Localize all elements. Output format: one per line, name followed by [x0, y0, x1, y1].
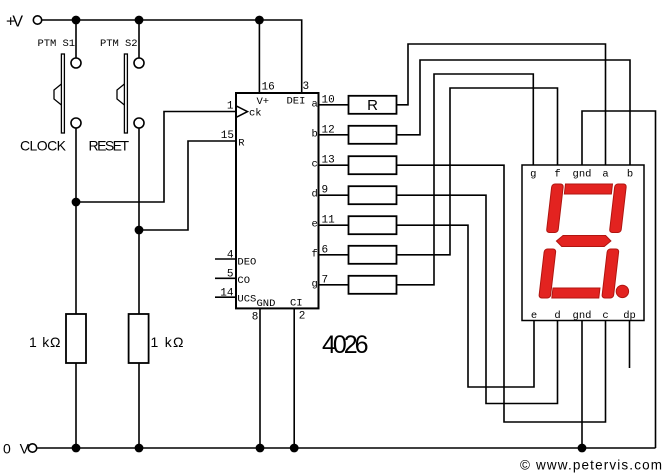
- junction +V at pin16: [255, 16, 264, 25]
- svg-text:c: c: [312, 159, 318, 171]
- svg-text:DEO: DEO: [237, 257, 256, 269]
- wire resistor d to display pin d: [397, 195, 558, 403]
- svg-text:ck: ck: [249, 108, 262, 120]
- svg-text:e: e: [531, 310, 537, 322]
- svg-text:4: 4: [227, 250, 234, 262]
- svg-text:9: 9: [322, 185, 329, 197]
- svg-text:CLOCK: CLOCK: [20, 138, 67, 154]
- svg-text:R: R: [238, 138, 245, 150]
- resistor Rd: [349, 186, 397, 204]
- 7-segment digit 8: [539, 184, 627, 298]
- resistor Rg: [349, 276, 397, 294]
- wire +V to S2: [138, 20, 140, 58]
- wire reset node to pin15 R: [139, 141, 236, 230]
- switch S2 terminals: [134, 58, 144, 68]
- svg-text:UCS: UCS: [237, 294, 256, 306]
- wire pin16 V+ drop: [258, 20, 260, 93]
- svg-text:b: b: [312, 128, 318, 140]
- svg-text:c: c: [602, 310, 608, 322]
- svg-text:1: 1: [227, 101, 234, 113]
- svg-text:0 V: 0 V: [3, 441, 30, 457]
- segment g: [556, 236, 612, 247]
- svg-text:6: 6: [322, 244, 329, 256]
- svg-text:R: R: [367, 97, 378, 114]
- segment e: [539, 249, 556, 298]
- svg-text:dp: dp: [623, 310, 636, 322]
- junction clock node: [72, 198, 81, 207]
- junction reset node: [135, 226, 144, 235]
- junction 0V at display gnd: [578, 444, 587, 453]
- wire resistor f to display pin f: [397, 88, 558, 255]
- svg-text:10: 10: [322, 94, 335, 106]
- svg-text:d: d: [554, 310, 560, 322]
- pin 14 UCS stub: [215, 296, 236, 298]
- switch S1 terminals: [71, 58, 81, 68]
- junction 0V at pin2: [290, 444, 299, 453]
- switch S1 button bump: [54, 84, 61, 105]
- resistor Re: [349, 216, 397, 234]
- svg-text:7: 7: [322, 274, 329, 286]
- svg-text:GND: GND: [257, 298, 276, 310]
- wire +V rail to pin3 DEI: [42, 20, 302, 93]
- wire resistor a to display pin a: [397, 44, 606, 165]
- wire pin6 f to resistor: [319, 254, 349, 256]
- junction 0V at R2: [135, 444, 144, 453]
- decimal point dp: [616, 285, 628, 297]
- junction +V at S1: [72, 16, 81, 25]
- svg-text:1 kΩ: 1 kΩ: [151, 334, 184, 350]
- wire pin8 GND to 0V rail: [259, 308, 261, 448]
- junction 0V at pin8: [256, 444, 265, 453]
- wire pin13 c to resistor: [319, 164, 349, 166]
- wire pin7 g to resistor: [319, 284, 349, 286]
- svg-text:g: g: [530, 169, 536, 181]
- wire resistor b to display pin b: [397, 60, 631, 165]
- svg-text:1 kΩ: 1 kΩ: [29, 334, 61, 350]
- pin 5 CO stub: [215, 277, 236, 279]
- wire display dp stub: [629, 321, 631, 369]
- wire +V to S1: [75, 20, 77, 58]
- svg-text:PTM S2: PTM S2: [100, 38, 138, 50]
- svg-text:3: 3: [303, 81, 310, 93]
- segment d: [552, 288, 600, 298]
- switch S2 button bump: [117, 84, 124, 105]
- wire pin12 b to resistor: [319, 134, 349, 136]
- svg-text:a: a: [312, 98, 318, 110]
- svg-text:13: 13: [322, 155, 335, 167]
- wire pin11 e to resistor: [319, 224, 349, 226]
- svg-text:V+: V+: [257, 96, 270, 108]
- wire pin9 d to resistor: [319, 194, 349, 196]
- svg-text:2: 2: [299, 311, 306, 323]
- svg-text:CI: CI: [290, 298, 303, 310]
- svg-text:16: 16: [262, 82, 275, 94]
- node 0V terminal circle: [28, 444, 36, 452]
- wire R1 to 0V rail: [75, 363, 77, 448]
- svg-text:a: a: [602, 169, 608, 181]
- segment c: [602, 249, 619, 298]
- svg-text:RESET: RESET: [89, 138, 130, 154]
- display DS1 body: [522, 165, 644, 321]
- svg-text:DEI: DEI: [287, 96, 306, 108]
- svg-text:11: 11: [322, 215, 336, 227]
- junction +V at S2: [135, 16, 144, 25]
- wire S1 bottom to R1: [75, 128, 77, 314]
- junction 0V at R1: [72, 444, 81, 453]
- wire clock node to pin1 ck: [76, 112, 236, 203]
- svg-text:CO: CO: [237, 275, 250, 287]
- clock input triangle pin1: [236, 106, 248, 118]
- resistor R2 1k: [129, 314, 149, 363]
- segment a: [564, 184, 612, 194]
- svg-text:4026: 4026: [322, 331, 369, 359]
- resistor Rf: [349, 246, 397, 264]
- svg-text:f: f: [312, 248, 318, 260]
- svg-text:PTM S1: PTM S1: [38, 38, 76, 50]
- resistor Rb: [349, 126, 397, 144]
- wire resistor c to display pin c: [397, 165, 606, 422]
- wire pin2 CI to 0V rail: [293, 308, 295, 448]
- svg-text:14: 14: [220, 287, 234, 299]
- wire resistor e to display pin e: [397, 225, 535, 387]
- wire pin10 a to resistor: [319, 104, 349, 106]
- svg-text:8: 8: [252, 312, 259, 324]
- segment f: [546, 184, 563, 233]
- svg-text:gnd: gnd: [573, 310, 592, 322]
- wire S2 bottom to R2: [138, 128, 140, 314]
- svg-text:gnd: gnd: [573, 169, 592, 181]
- svg-text:15: 15: [221, 130, 234, 142]
- pin 4 DEO stub: [215, 258, 236, 260]
- switch S1 actuator bar: [61, 54, 64, 133]
- svg-text:+V: +V: [6, 14, 23, 31]
- svg-text:f: f: [554, 169, 560, 181]
- svg-text:12: 12: [322, 124, 335, 136]
- switch S2 actuator bar: [124, 54, 127, 133]
- svg-text:d: d: [312, 189, 318, 201]
- node +V terminal circle: [33, 16, 41, 24]
- wire display gnd bottom to 0V rail: [581, 321, 583, 449]
- resistor R1 1k: [66, 314, 86, 363]
- IC U1 4026 body: [236, 93, 319, 308]
- svg-text:g: g: [312, 278, 318, 290]
- svg-text:e: e: [312, 219, 318, 231]
- resistor Ra: [349, 96, 397, 114]
- wire R2 to 0V rail: [138, 363, 140, 448]
- wire gnd right riser to display gnd top: [582, 111, 656, 448]
- svg-text:5: 5: [227, 269, 234, 281]
- wire 0V rail: [37, 447, 656, 449]
- resistor Rc: [349, 156, 397, 174]
- svg-text:b: b: [627, 169, 633, 181]
- wire resistor g to display pin g: [397, 74, 534, 285]
- svg-text:© www.petervis.com: © www.petervis.com: [520, 458, 662, 473]
- segment b: [609, 184, 626, 233]
